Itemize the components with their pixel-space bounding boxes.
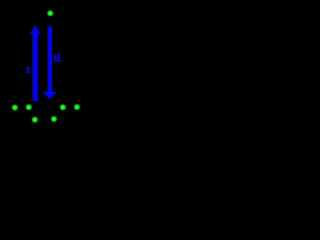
vector arrow up V1: [30, 25, 40, 101]
label H (right of down arrow): [54, 54, 61, 62]
particle P5: [73, 104, 80, 111]
particle P2 (bottom row): [11, 104, 18, 111]
particle P6 (lower): [31, 116, 38, 123]
vector arrow down V2: [43, 26, 57, 99]
particle P7 (lower): [50, 115, 57, 122]
particle P4: [59, 104, 66, 111]
particle P1 (top green dot): [47, 10, 54, 17]
particle P3: [25, 104, 32, 111]
background: [0, 0, 121, 129]
label 1 (left of up arrow): [25, 67, 29, 73]
